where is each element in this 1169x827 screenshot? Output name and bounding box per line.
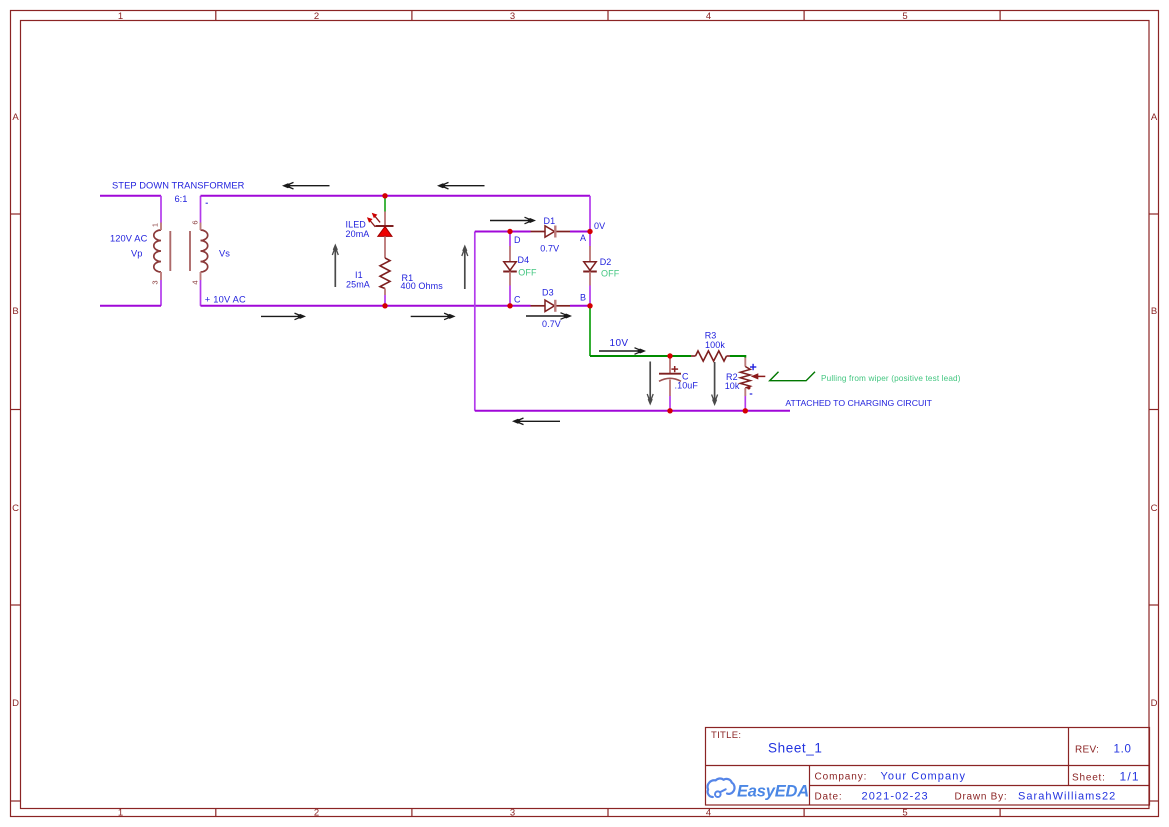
svg-text:3: 3 [150, 280, 159, 284]
arrow on green 10V rightward [599, 348, 646, 355]
svg-text:REV:: REV: [1075, 745, 1099, 756]
svg-text:EasyEDA: EasyEDA [737, 783, 809, 801]
svg-text:0.7V: 0.7V [542, 319, 561, 329]
svg-text:1: 1 [150, 223, 159, 227]
wire capacitor bottom stub [669, 396, 671, 411]
svg-text:Company:: Company: [815, 772, 868, 783]
svg-text:10k: 10k [725, 381, 740, 391]
svg-text:3: 3 [510, 11, 515, 22]
svg-text:A: A [12, 112, 19, 123]
diode D4 [503, 246, 517, 286]
wire D2 top stub [589, 232, 591, 247]
R2 minus polarity mark [750, 393, 753, 395]
wire D2 bottom stub [589, 286, 591, 306]
potentiometer R2 wiper dot [747, 386, 750, 389]
node LED top junction [382, 193, 387, 198]
ruler row letters left [12, 112, 19, 709]
svg-text:100k: 100k [705, 340, 725, 350]
svg-text:1/1: 1/1 [1120, 770, 1140, 784]
capacitor C pin top [669, 356, 671, 373]
svg-text:Vs: Vs [219, 249, 230, 259]
capacitor C plus sign [671, 366, 678, 372]
wire green DC positive horizontal [590, 355, 691, 357]
wire node A drop [589, 196, 591, 232]
arrow bottom-mid rightward [411, 313, 456, 320]
arrow downward at cap [647, 362, 653, 406]
svg-text:TITLE:: TITLE: [711, 730, 741, 741]
svg-text:B: B [580, 293, 586, 303]
wire D1 right stub [570, 231, 590, 233]
diode D2 [583, 246, 597, 286]
diode D3 [531, 300, 571, 312]
svg-text:2: 2 [314, 808, 319, 819]
svg-text:B: B [12, 306, 18, 317]
resistor R3 right lead [727, 355, 731, 357]
wire primary left vertical top [160, 196, 162, 223]
svg-text:0V: 0V [594, 221, 605, 231]
arrow bottom-left rightward [261, 313, 306, 320]
ruler column numbers top [118, 11, 908, 22]
svg-text:Sheet:: Sheet: [1072, 773, 1106, 784]
svg-text:A: A [1151, 112, 1158, 123]
svg-text:5: 5 [902, 808, 907, 819]
LED emission arrows [367, 213, 380, 227]
svg-text:400 Ohms: 400 Ohms [401, 281, 444, 291]
node D [507, 229, 512, 234]
ruler column numbers bottom [118, 808, 908, 819]
svg-text:Vp: Vp [131, 249, 142, 259]
node C cap top junction [667, 353, 672, 358]
svg-text:D: D [514, 235, 521, 245]
wire R1 bottom stub [384, 295, 386, 306]
svg-text:D2: D2 [600, 257, 612, 267]
wire green R3 to R2 corner [730, 356, 745, 358]
arrow downward at R2 [712, 362, 718, 406]
ruler row letters right [1151, 112, 1158, 709]
svg-text:4: 4 [706, 11, 711, 22]
arrow upward left of R1 [332, 244, 338, 288]
svg-text:A: A [580, 233, 586, 243]
node A [587, 229, 592, 234]
EasyEDA logo cloud [708, 778, 735, 797]
svg-text:D4: D4 [518, 255, 530, 265]
svg-text:OFF: OFF [518, 268, 537, 278]
resistor R3 zigzag [696, 351, 727, 361]
node R1 bottom junction [382, 303, 387, 308]
wire D4 bottom stub [509, 286, 511, 306]
node C [507, 303, 512, 308]
probe clip symbol [770, 372, 815, 381]
svg-text:D3: D3 [542, 288, 554, 298]
arrow above D1 rightward [490, 217, 536, 224]
svg-text:C: C [1151, 503, 1158, 514]
arrow top-right leftward [437, 182, 485, 189]
R1 pin bottom [384, 289, 386, 296]
LED pin bottom / R1 pin top [384, 236, 386, 258]
wire D3 right stub [570, 305, 590, 307]
svg-text:ILED: ILED [346, 220, 367, 230]
svg-text:25mA: 25mA [346, 279, 370, 289]
svg-text:1: 1 [118, 11, 123, 22]
transformer core lines [170, 231, 190, 271]
svg-text:OFF: OFF [601, 269, 620, 279]
arrow top-left leftward [282, 182, 330, 189]
svg-text:ATTACHED TO CHARGING CIRCUIT: ATTACHED TO CHARGING CIRCUIT [785, 398, 932, 408]
wire top rail [201, 195, 591, 197]
wire DC negative bottom rail [475, 410, 790, 412]
label minus secondary [206, 202, 208, 204]
wire green LED top stub [384, 197, 386, 212]
svg-text:20mA: 20mA [346, 229, 370, 239]
svg-text:1.0: 1.0 [1114, 744, 1132, 756]
wire D1 left stub [510, 231, 531, 233]
wire green node B drop [589, 307, 591, 357]
title block frame [706, 728, 1150, 806]
node B [587, 303, 592, 308]
wire secondary vertical bottom [200, 280, 202, 306]
diode D1 [531, 226, 571, 238]
capacitor C pin bottom [669, 380, 671, 397]
svg-text:3: 3 [510, 808, 515, 819]
svg-text:4: 4 [190, 280, 199, 284]
wire secondary vertical top [200, 196, 202, 223]
svg-text:R3: R3 [705, 331, 717, 341]
wire top-left primary [100, 195, 161, 197]
node R2 bottom junction [743, 408, 748, 413]
svg-text:4: 4 [706, 808, 711, 819]
svg-text:+ 10V AC: + 10V AC [205, 294, 246, 304]
potentiometer R2 pin bottom [744, 388, 746, 396]
LED triangle [378, 227, 392, 237]
capacitor C curved plate [659, 378, 681, 381]
svg-text:C: C [514, 295, 521, 305]
wire R2 bottom stub [744, 396, 746, 411]
svg-text:.10uF: .10uF [675, 381, 699, 391]
svg-text:10V: 10V [610, 338, 629, 349]
svg-text:Drawn By:: Drawn By: [955, 792, 1008, 803]
svg-text:2: 2 [314, 11, 319, 22]
svg-text:Pulling from wiper (positive t: Pulling from wiper (positive test lead) [821, 374, 961, 383]
arrow below bottom rail leftward [512, 418, 560, 425]
svg-text:120V AC: 120V AC [110, 234, 148, 244]
transformer secondary coil [201, 230, 208, 272]
svg-text:D: D [12, 698, 19, 709]
transformer pin stubs [161, 223, 201, 281]
wire primary left vertical bottom [160, 280, 162, 306]
svg-text:2021-02-23: 2021-02-23 [862, 791, 929, 803]
svg-text:6: 6 [190, 220, 199, 224]
svg-text:0.7V: 0.7V [540, 244, 559, 254]
svg-text:Date:: Date: [815, 792, 843, 803]
wire bottom-left primary [100, 305, 161, 307]
svg-text:STEP DOWN TRANSFORMER: STEP DOWN TRANSFORMER [112, 181, 245, 191]
svg-text:D: D [1151, 698, 1158, 709]
R2 plus polarity mark [750, 364, 756, 370]
svg-text:C: C [12, 503, 19, 514]
svg-text:6:1: 6:1 [175, 194, 188, 204]
svg-text:1: 1 [118, 808, 123, 819]
potentiometer R2 wiper arrow [751, 373, 766, 379]
arrow below D3 rightward [526, 313, 572, 320]
arrow upward left of bridge [462, 245, 468, 290]
capacitor C top plate [659, 373, 681, 375]
resistor R1 zigzag [380, 258, 390, 289]
node cap bottom junction [667, 408, 672, 413]
wire bridge left branch vertical [474, 232, 476, 411]
svg-text:Sheet_1: Sheet_1 [768, 741, 823, 756]
svg-text:B: B [1151, 306, 1157, 317]
LED pin top [384, 212, 386, 227]
transformer primary coil [154, 230, 161, 272]
potentiometer R2 zigzag [740, 367, 750, 389]
resistor R3 left lead [691, 355, 696, 357]
wire D4 top stub [509, 232, 511, 247]
potentiometer R2 pin top [744, 358, 746, 367]
wire D3 left stub [510, 305, 531, 307]
wire bridge left branch horizontal to node D [475, 231, 510, 233]
svg-text:D1: D1 [544, 216, 556, 226]
LED cathode bar [376, 225, 394, 227]
wire bottom rail AC [201, 305, 511, 307]
svg-text:5: 5 [902, 11, 907, 22]
svg-text:Your Company: Your Company [881, 771, 967, 783]
svg-text:SarahWilliams22: SarahWilliams22 [1018, 791, 1116, 803]
